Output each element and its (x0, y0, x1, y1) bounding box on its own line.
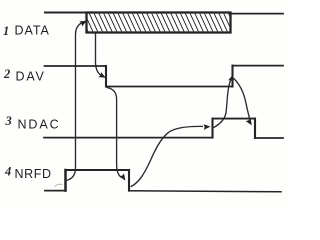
arrowhead at NRFD falling edge (119, 173, 125, 180)
arrow curve DAV rise to NDAC fall (234, 79, 250, 120)
svg-text:3: 3 (5, 114, 12, 128)
svg-text:2: 2 (3, 67, 10, 81)
wire DATA high left (45, 12, 87, 14)
wire NRFD low right (129, 191, 281, 192)
wire DAV high right (233, 65, 284, 67)
wire DAV rising edge (231, 66, 233, 87)
svg-text:1: 1 (3, 24, 9, 38)
wire NDAC low left (44, 137, 213, 139)
arrow curve NRFD rise to DATA (66, 23, 82, 181)
arrowhead at NDAC rising edge (203, 124, 210, 130)
arrow curve NDAC rise to DAV rise (214, 79, 231, 128)
arrowhead at DATA box (79, 21, 87, 27)
svg-text:4: 4 (4, 165, 11, 179)
faint pencil mark (55, 184, 63, 186)
svg-text:NDAC: NDAC (18, 118, 61, 132)
wire NRFD rising edge (64, 170, 67, 191)
arrow curve DAV fall to NRFD fall (107, 88, 121, 178)
wire NRFD low left (45, 190, 66, 192)
arrowhead at DAV rising edge (228, 75, 234, 83)
wire DATA high right (231, 13, 284, 15)
wire NDAC falling edge (254, 119, 256, 138)
data valid hatched box (79, 13, 237, 33)
wire NDAC high (213, 118, 256, 120)
svg-text:DAV: DAV (16, 70, 46, 84)
wire DAV falling edge (105, 66, 107, 87)
wire DAV low (106, 86, 233, 88)
arrowhead at DAV falling edge (98, 72, 106, 78)
wire NRFD high (66, 169, 130, 171)
wire NDAC rising edge (211, 119, 213, 138)
svg-text:NRFD: NRFD (15, 167, 52, 181)
wire NDAC low right (255, 137, 283, 139)
wire DAV high left (45, 65, 107, 67)
svg-text:DATA: DATA (15, 24, 50, 38)
arrow curve DATA to DAV fall (96, 33, 101, 75)
wire NRFD falling edge (128, 170, 130, 191)
arrow curve NRFD fall to NDAC rise (131, 126, 203, 186)
arrowhead at NDAC falling edge (246, 118, 252, 126)
